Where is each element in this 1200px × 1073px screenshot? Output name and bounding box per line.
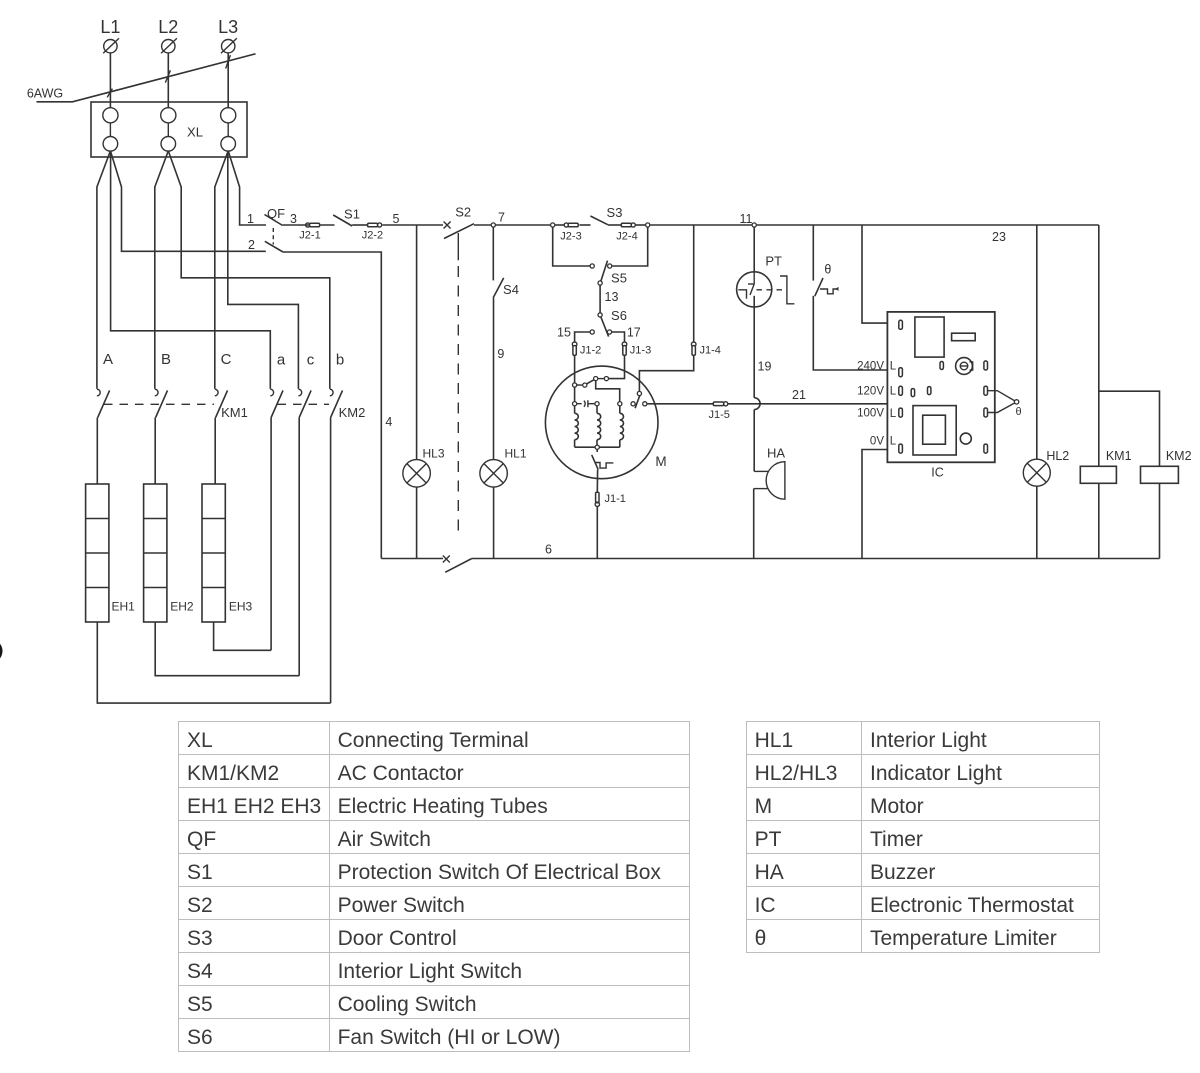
power switch S2 pole 1	[444, 205, 474, 239]
protection switch S1	[333, 207, 360, 227]
IC mid pill 2	[928, 387, 931, 395]
svg-text:S1: S1	[344, 207, 360, 222]
S5 common contact	[598, 281, 602, 285]
legend table right	[746, 721, 1100, 953]
S5 right contact	[608, 264, 612, 268]
svg-text:EH1: EH1	[112, 600, 136, 614]
S6 right contact (17)	[607, 325, 640, 339]
wire HL2 to bus 6	[1036, 486, 1038, 558]
bus wire 6	[381, 543, 1159, 559]
svg-text:J2-3: J2-3	[560, 231, 581, 243]
IC indicator circle	[960, 433, 971, 444]
connector J2-4	[608, 223, 646, 243]
capacitor node	[573, 402, 577, 406]
motor run capacitor	[577, 400, 595, 407]
cable designation 6AWG with leader line	[27, 54, 256, 102]
motor speed contact (high)	[594, 377, 598, 381]
svg-text:6: 6	[545, 543, 552, 557]
wire phase B (L2 left fork)	[155, 151, 169, 389]
node at J2-4 right	[646, 223, 650, 227]
svg-text:15: 15	[557, 325, 571, 339]
KM1 linkage (dashed)	[104, 403, 214, 405]
supply terminal L2	[158, 17, 178, 53]
svg-text:HL1: HL1	[504, 447, 526, 461]
wire 19 hop over wire 21	[754, 398, 760, 410]
page artefact (clipped bullet)	[0, 640, 3, 662]
IC terminal 120V	[857, 385, 902, 397]
svg-text:21: 21	[792, 388, 806, 402]
connector J2-2	[362, 223, 383, 242]
IC relay block	[915, 317, 944, 357]
wire θ to IC 240V	[813, 296, 898, 370]
motor winding 1	[575, 406, 579, 447]
wire J1-1 to bus 6	[596, 507, 598, 559]
svg-text:L3: L3	[218, 17, 238, 37]
wire phase C (L3 left fork)	[215, 151, 228, 389]
svg-text:c: c	[307, 351, 315, 368]
conductor tick L2 wire	[165, 70, 170, 82]
connector J1-1	[595, 492, 626, 506]
wire S2 to node 7	[474, 224, 491, 226]
connector J1-5	[709, 402, 730, 421]
svg-text:EH3: EH3	[229, 600, 253, 614]
IC mid pill	[940, 362, 943, 370]
svg-text:HL2: HL2	[1046, 449, 1069, 463]
timer PT	[737, 254, 795, 308]
S2 linkage (dashed)	[457, 233, 459, 260]
svg-text:M: M	[655, 454, 666, 469]
indicator light HL3	[403, 447, 445, 488]
wire phase A (L1 left fork)	[97, 151, 111, 389]
wire contact to capacitor row	[574, 387, 576, 401]
wire HA to bus 6	[753, 489, 755, 559]
wire bus to contactor coils	[1098, 225, 1100, 466]
svg-text:2: 2	[248, 238, 255, 252]
wire 9 lower (S4 to HL1)	[494, 296, 505, 459]
buzzer HA	[754, 446, 786, 500]
wire to a (L1 centre)	[111, 151, 271, 389]
wire 2 feeder (L1 right fork)	[110, 151, 265, 251]
node 7	[491, 211, 505, 228]
svg-text:PT: PT	[765, 254, 782, 269]
wire S1 to J2-2	[352, 224, 367, 226]
wire KM2 to bus 6	[1159, 483, 1161, 558]
svg-text:240V: 240V	[857, 360, 884, 372]
power switch S2 pole 2	[443, 556, 472, 573]
svg-text:EH2: EH2	[170, 600, 194, 614]
electric heating tube EH2	[144, 484, 194, 622]
wire 9 upper (node7 to S4)	[492, 228, 494, 281]
node 11	[740, 212, 757, 227]
wire 13	[600, 285, 618, 312]
svg-text:QF: QF	[267, 206, 285, 221]
svg-text:S5: S5	[611, 271, 627, 286]
motor speed contact (low)	[573, 383, 577, 387]
wire HL1 to bus 6	[493, 487, 495, 558]
svg-text:6AWG: 6AWG	[27, 87, 63, 101]
wire J1-3 into motor	[609, 355, 625, 379]
svg-text:θ: θ	[824, 263, 831, 277]
wire 1 feeder (L3 right fork)	[228, 151, 266, 225]
interior light switch S4	[494, 278, 519, 297]
conductor tick L1 wire	[107, 89, 112, 98]
svg-text:C: C	[221, 351, 232, 368]
S6 top contact	[598, 313, 602, 317]
svg-text:17: 17	[627, 325, 641, 339]
wire node11 to PT	[753, 227, 755, 271]
centrifugal switch blade	[635, 396, 640, 409]
svg-text:19: 19	[758, 360, 772, 374]
svg-text:J1-5: J1-5	[709, 409, 730, 421]
contactor KM1 main contact A	[97, 389, 100, 396]
cooling switch S5 blade	[601, 261, 627, 286]
contactor KM2 main contact a	[270, 389, 273, 396]
contactor coil KM2	[1141, 449, 1192, 483]
IC terminal 120V link pill	[911, 389, 914, 397]
KM2 linkage (dashed)	[278, 403, 330, 405]
wire 5 (J2-2 to S2)	[383, 212, 444, 226]
wire 11 (S3 to right)	[650, 224, 752, 226]
centrifugal switch contacts	[631, 402, 635, 406]
air switch QF pole 1	[265, 206, 286, 226]
wire EH2 to c	[155, 622, 299, 676]
svg-text:θ: θ	[1015, 406, 1021, 418]
motor speed selector blade	[587, 380, 594, 384]
electronic thermostat IC box	[887, 312, 994, 480]
indicator light HL2	[1023, 449, 1069, 486]
supply terminal L3	[218, 17, 238, 53]
wire node to S5 left contact	[553, 227, 590, 266]
svg-text:IC: IC	[931, 466, 944, 480]
svg-text:J1-1: J1-1	[605, 493, 626, 505]
svg-text:11: 11	[740, 212, 753, 226]
svg-text:J1-2: J1-2	[580, 345, 601, 357]
svg-text:KM1: KM1	[1106, 449, 1132, 463]
wire L1 to XL	[109, 53, 111, 108]
svg-text:J2-2: J2-2	[362, 230, 383, 242]
svg-text:0V: 0V	[870, 435, 884, 447]
wire 19 (PT down)	[754, 296, 771, 398]
terminal block XL	[91, 102, 247, 157]
wire bus to HL2	[1036, 225, 1038, 459]
svg-text:L: L	[890, 361, 897, 373]
motor winding 3 (main)	[620, 406, 624, 447]
IC trimmer potentiometer	[956, 358, 973, 375]
svg-text:13: 13	[605, 290, 619, 304]
wire bus to HL3	[416, 225, 418, 460]
svg-text:L: L	[890, 408, 897, 420]
svg-text:a: a	[277, 351, 286, 368]
wire node7 to node S5-left	[496, 224, 551, 226]
contactor KM1 main contact B	[155, 389, 158, 396]
IC terminal 0V	[870, 435, 902, 453]
connector J1-3	[622, 342, 651, 357]
svg-text:L1: L1	[100, 17, 120, 37]
motor winding 2	[597, 406, 601, 447]
svg-text:J1-3: J1-3	[630, 345, 651, 357]
main winding node	[618, 402, 622, 406]
supply terminal L1	[100, 17, 120, 53]
wire IC 0V to bus 6	[862, 450, 899, 559]
svg-text:b: b	[336, 351, 344, 368]
svg-text:3: 3	[290, 212, 297, 226]
air switch QF linkage (dashed)	[272, 228, 274, 245]
svg-text:KM1: KM1	[221, 405, 248, 420]
IC terminal 100V	[857, 408, 902, 420]
IC transformer block	[913, 406, 956, 455]
wire J1-4 to start switch	[639, 355, 693, 391]
contactor KM2 main contact c	[298, 389, 301, 396]
svg-text:KM2: KM2	[339, 405, 366, 420]
IC right terminals	[984, 361, 988, 370]
motor thermal protector	[592, 450, 614, 470]
winding common bus	[575, 446, 620, 448]
svg-text:L2: L2	[158, 17, 178, 37]
svg-text:L: L	[890, 436, 897, 448]
IC terminal input	[899, 320, 903, 329]
wire 15 to J1-2	[575, 332, 590, 342]
wire bus to IC terminal	[862, 225, 899, 323]
wire to c (L3 centre)	[228, 151, 299, 389]
conductor tick L3 wire	[226, 55, 231, 68]
svg-text:5: 5	[393, 212, 400, 226]
IC component block	[952, 333, 976, 341]
svg-text:9: 9	[497, 347, 504, 361]
wire S5 right to bus	[612, 227, 648, 266]
svg-text:J2-4: J2-4	[616, 231, 637, 243]
S5 left contact	[590, 264, 594, 268]
wire 17 to J1-3	[612, 332, 625, 342]
svg-text:HA: HA	[767, 446, 785, 461]
connector J1-2	[572, 342, 601, 357]
contactor coil KM1	[1080, 449, 1131, 483]
wire HL3 to bus 6	[416, 487, 418, 558]
svg-text:7: 7	[498, 211, 505, 225]
svg-text:S6: S6	[611, 308, 627, 323]
wire J1-2 into motor	[574, 355, 576, 383]
svg-text:HL3: HL3	[422, 447, 444, 461]
winding common node	[595, 445, 599, 449]
wire L2 to XL	[167, 53, 169, 108]
svg-text:S2: S2	[455, 205, 471, 220]
wire tap to main winding	[596, 381, 620, 401]
electric heating tube EH1	[86, 484, 136, 622]
wire 23 top bus	[757, 225, 1099, 244]
svg-text:120V: 120V	[857, 385, 884, 397]
wire 19 to HA	[753, 410, 755, 472]
legend table left	[178, 721, 690, 1052]
wire QF pole2 out / wire 4	[283, 252, 392, 559]
svg-text:4: 4	[385, 415, 392, 429]
wire A to EH1	[96, 418, 98, 485]
wire b return	[330, 418, 332, 704]
connector J2-3	[555, 223, 582, 243]
svg-text:S4: S4	[503, 282, 519, 297]
svg-text:23: 23	[992, 230, 1006, 244]
wire to b (L2 right fork)	[168, 151, 329, 389]
door control switch S3	[579, 205, 622, 225]
IC terminal 240V	[857, 360, 902, 376]
wire protector to J1-1	[596, 470, 598, 493]
wire EH3 to a	[214, 622, 272, 650]
contactor KM2 main contact b	[330, 389, 333, 396]
wire 21 (centrifugal switch to IC)	[647, 388, 806, 404]
svg-text:B: B	[161, 351, 171, 368]
wire C to EH3	[214, 418, 216, 485]
wire B to EH2	[154, 418, 156, 485]
wire bus to J1-4	[693, 225, 695, 342]
temperature limiter θ switch	[813, 225, 838, 296]
motor M circle	[545, 366, 666, 479]
wire 21 continues to IC	[728, 393, 911, 404]
temperature sensor θ probe	[988, 391, 1022, 418]
wire 3 (QF to S1 via J2-1)	[283, 224, 335, 226]
svg-text:J2-1: J2-1	[299, 230, 320, 242]
wire a return	[270, 418, 272, 651]
S6 left contact (15)	[557, 325, 594, 339]
node at J2-3 branch	[551, 223, 555, 227]
svg-text:A: A	[103, 351, 113, 368]
svg-text:J1-4: J1-4	[700, 345, 721, 357]
wire L3 to XL	[227, 53, 229, 108]
svg-text:KM2: KM2	[1166, 449, 1192, 463]
connector J1-4	[691, 342, 721, 357]
air switch QF pole 2	[265, 241, 283, 252]
wire EH1 to b	[97, 622, 330, 703]
wire c return	[298, 418, 300, 676]
svg-text:1: 1	[247, 212, 254, 226]
svg-text:L: L	[890, 386, 897, 398]
interior light HL1	[480, 447, 527, 488]
fan switch S6 blade	[601, 308, 627, 337]
svg-text:S3: S3	[607, 205, 623, 220]
connector J2-1	[299, 223, 320, 242]
svg-text:100V: 100V	[857, 408, 884, 420]
electric heating tube EH3	[202, 484, 253, 622]
wire KM1 to bus 6	[1098, 483, 1100, 558]
contactor KM1 main contact C	[215, 389, 218, 396]
svg-text:XL: XL	[187, 125, 203, 140]
